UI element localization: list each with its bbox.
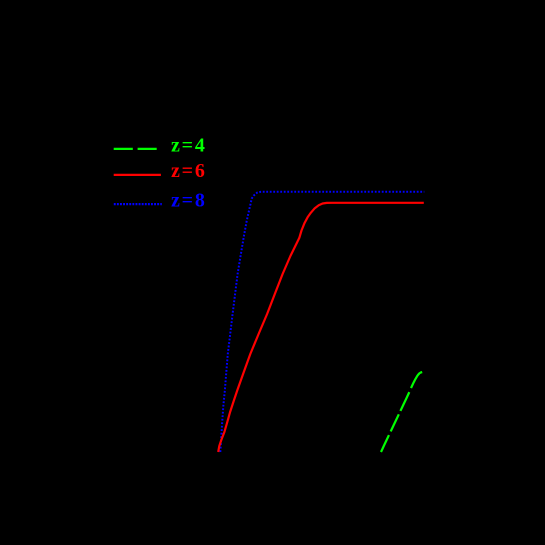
svg-text:z=8: z=8 [171, 190, 207, 212]
legend line z=8 (blue dotted) [114, 203, 162, 205]
legend line z=6 (red solid) [114, 174, 161, 176]
curve z=4 (green dashed) [381, 372, 422, 452]
curve z=6 (red solid) [218, 203, 424, 452]
svg-text:z=4: z=4 [171, 134, 207, 156]
curve z=8 (blue dotted) [220, 192, 424, 452]
legend line z=4 (green dashed) [114, 148, 157, 150]
svg-text:z=6: z=6 [171, 160, 207, 182]
